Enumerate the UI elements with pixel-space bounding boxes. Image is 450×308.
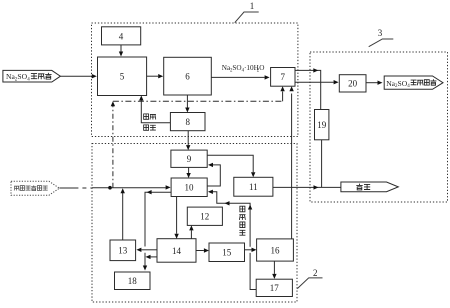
box 7 <box>271 68 295 87</box>
wire mother liquor dash-dot line to box 7 <box>111 86 285 188</box>
svg-text:13: 13 <box>118 246 128 256</box>
label 2 leader tick <box>297 278 322 289</box>
label Na2SO4.10H2O <box>222 64 265 73</box>
frame 2 (unit 2 dotted boundary) <box>92 144 297 303</box>
wire box 16 to box 17 <box>272 261 276 279</box>
wire box 9 to box 11 <box>207 155 255 177</box>
wire box 10 to box 18 (left drop) <box>143 190 171 271</box>
svg-text:11: 11 <box>249 182 258 192</box>
svg-text:7: 7 <box>281 72 286 82</box>
svg-text:18: 18 <box>128 276 138 286</box>
label mother liquor reflux (two lines) <box>144 114 156 130</box>
wire box 11 to fresh water label <box>273 185 341 189</box>
box 10 <box>171 178 207 197</box>
svg-text:SO: SO <box>17 72 27 81</box>
svg-text:1: 1 <box>250 1 255 11</box>
svg-text:15: 15 <box>222 248 232 258</box>
wire box 20 to product label <box>366 81 383 85</box>
label Na2SO4 raw water (input pentagon) <box>3 70 61 82</box>
box 16 <box>257 239 294 261</box>
wire mother liquor reflux box 8 to box 5 <box>139 96 170 123</box>
wire steam line to box 10 <box>92 185 171 189</box>
label fresh water (output pentagon) <box>341 182 398 192</box>
label mother liquor reflux (vertical) <box>239 206 245 235</box>
frame 3 (unit 3 dotted boundary) <box>310 52 448 202</box>
wire box 16 to box 7 (vertical riser) <box>289 86 293 239</box>
svg-text:SO: SO <box>232 64 241 72</box>
wire box 15 to box 16 <box>245 248 257 252</box>
box 13 <box>110 240 136 261</box>
wire box 10 to box 14 <box>174 197 178 239</box>
box 8 <box>170 113 205 131</box>
label 3 leader tick <box>369 39 394 47</box>
svg-text:20: 20 <box>348 79 358 89</box>
wire box 7 to box 20 <box>295 80 339 84</box>
svg-text:6: 6 <box>185 72 190 82</box>
svg-text:16: 16 <box>271 245 281 255</box>
svg-text:19: 19 <box>317 120 327 130</box>
wire box 10 to box 9 (feedback) <box>207 163 220 186</box>
wire raw water to box 5 <box>60 74 96 78</box>
label initial heating steam (dotted input pentagon) <box>11 181 59 195</box>
svg-text:3: 3 <box>378 28 383 38</box>
wire box 14 to box 15 <box>196 248 209 252</box>
box 15 <box>209 243 245 262</box>
box 19 <box>315 110 329 140</box>
label Na2SO4 industrial product (output pentagon) <box>384 76 443 89</box>
wire box 6 to box 7 <box>211 75 269 79</box>
wire box 14 to drop line (join) <box>146 255 158 259</box>
box 9 <box>171 150 207 167</box>
wire box 17 to box 10 (recycle path) <box>208 190 256 290</box>
svg-text:O: O <box>259 64 264 72</box>
wire box 14 to box 13 <box>136 248 157 252</box>
svg-text:SO: SO <box>398 79 408 88</box>
wire box 19 to fresh water line <box>321 140 323 188</box>
frame 1 (unit 1 dotted boundary) <box>92 23 298 137</box>
svg-text:2: 2 <box>313 268 318 278</box>
wire box 5 to box 6 <box>147 74 164 78</box>
wire box 4 to box 5 <box>119 45 123 57</box>
label 1 <box>250 1 255 11</box>
svg-text:14: 14 <box>172 246 182 256</box>
svg-text:5: 5 <box>120 72 125 82</box>
box 12 <box>187 207 222 225</box>
wire box 6 to box 8 <box>185 95 189 113</box>
label 2 <box>313 268 318 278</box>
box 20 <box>339 75 366 92</box>
label 3 <box>378 28 383 38</box>
svg-text:12: 12 <box>200 212 209 222</box>
svg-text:4: 4 <box>119 32 124 42</box>
wire box 8 to box 9 <box>186 131 190 150</box>
box 17 <box>256 279 292 296</box>
wire box 7 to box 19 (upper right) <box>295 68 321 109</box>
svg-text:10: 10 <box>185 183 195 193</box>
box 6 <box>164 57 212 95</box>
svg-text:9: 9 <box>187 154 192 164</box>
label 1 leader tick <box>235 12 259 23</box>
wire box 9 to box 10 <box>186 167 190 178</box>
box 5 <box>98 57 147 96</box>
box 14 <box>157 239 196 263</box>
junction steam / reflux riser <box>108 186 112 190</box>
box 18 <box>115 272 151 290</box>
box 4 <box>102 27 141 45</box>
svg-text:17: 17 <box>270 283 280 293</box>
wire steam feed (dashed outside frame) <box>59 187 92 189</box>
svg-text:8: 8 <box>185 117 190 127</box>
box 11 <box>234 177 273 196</box>
wire box 13 to steam line <box>121 188 125 240</box>
svg-text:4: 4 <box>407 84 410 89</box>
wire box 14 to box 12 <box>189 225 193 238</box>
